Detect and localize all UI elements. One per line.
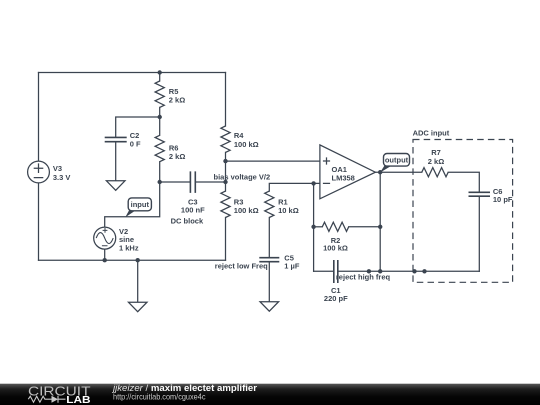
svg-text:10 pF: 10 pF <box>493 195 513 204</box>
capacitor C2 <box>105 131 141 181</box>
resistor R3 <box>221 191 259 217</box>
footer bar <box>0 383 540 405</box>
op-amp U1 OA1 LM358 <box>320 145 376 199</box>
node label input (callout) <box>125 198 151 217</box>
svg-text:10 kΩ: 10 kΩ <box>278 206 299 215</box>
svg-text:R7: R7 <box>431 148 441 157</box>
wire R3 bottom lead to ground rail <box>225 218 227 261</box>
wire R6 bottom node to C3 left plate <box>160 181 190 183</box>
wire left rail lower (V3 bottom lead) <box>38 183 40 260</box>
wire C6 bottom lead <box>478 197 480 271</box>
node R2 left junction <box>311 225 315 229</box>
wire input branch from V2 to R6/C3 node <box>105 182 160 227</box>
node output junction <box>378 170 382 174</box>
svg-text:LAB: LAB <box>66 395 90 405</box>
svg-text:100 kΩ: 100 kΩ <box>234 206 259 215</box>
capacitor C5 <box>259 253 300 270</box>
voltage source V3 <box>28 161 71 183</box>
wire bottom ground rail <box>39 259 226 261</box>
voltage source V2 (sine) <box>94 227 139 252</box>
svg-text:V3: V3 <box>53 164 62 173</box>
ground below bottom rail <box>128 302 147 312</box>
wire R4 bottom lead <box>225 152 227 161</box>
svg-text:100 kΩ: 100 kΩ <box>234 140 259 149</box>
svg-text:reject high freq: reject high freq <box>336 272 391 281</box>
logo diode glyph <box>52 396 59 403</box>
wire R5 bottom lead to node <box>159 107 161 117</box>
wire R1 top lead and bias line to op-amp - input <box>269 183 320 191</box>
node op-amp minus input junction <box>311 181 315 185</box>
wire feedback right vertical from output node <box>379 172 381 271</box>
node bottom rail junction a <box>367 269 371 273</box>
resistor R5 <box>155 81 185 107</box>
wire R4 node to op-amp + input <box>226 160 320 162</box>
node R6/C3/input junction <box>158 180 162 184</box>
wire node to C2 branch <box>116 117 160 137</box>
capacitor C6 <box>469 187 513 204</box>
svg-text:input: input <box>131 200 150 209</box>
capacitor C1 <box>324 260 348 303</box>
node feedback bottom junction <box>378 269 382 273</box>
node R5 top junction <box>158 70 162 74</box>
wire bottom feedback rail left of C1 <box>314 270 334 272</box>
resistor R2 <box>322 222 348 252</box>
svg-text:0 F: 0 F <box>130 139 141 148</box>
wire feedback left vertical from - input node <box>313 183 315 271</box>
wire R7 right lead to C6 top <box>448 172 479 191</box>
wire R5 top lead <box>159 73 161 82</box>
capacitor C3 <box>171 171 205 225</box>
wire R3 top lead <box>225 182 227 191</box>
wire ground stem below bottom rail <box>137 260 139 302</box>
svg-text:http://circuitlab.com/cguxe4c: http://circuitlab.com/cguxe4c <box>113 392 206 402</box>
wire R6 top lead <box>159 117 161 135</box>
wire top rail <box>39 72 226 74</box>
svg-text:220 pF: 220 pF <box>324 294 348 303</box>
node R2 right junction <box>378 225 382 229</box>
wire V2 bottom lead <box>104 249 106 260</box>
resistor R6 <box>155 135 185 161</box>
svg-text:LM358: LM358 <box>332 174 355 183</box>
node bias junction <box>223 180 227 184</box>
wire R1 bottom lead to C5 <box>268 218 270 258</box>
svg-text:output: output <box>385 156 409 165</box>
ground below C5 <box>260 302 279 312</box>
wire between R4 node and bias node <box>225 161 227 182</box>
svg-text:reject low Freq: reject low Freq <box>215 262 268 271</box>
svg-text:2 kΩ: 2 kΩ <box>169 152 185 161</box>
resistor R4 <box>221 126 259 152</box>
node V2 bottom junction <box>103 258 107 262</box>
node ground stem junction <box>136 258 140 262</box>
svg-text:ADC input: ADC input <box>413 128 450 137</box>
wire R2 right lead <box>349 226 381 228</box>
node label output (callout) <box>380 154 410 173</box>
node R5/R6/C2 junction <box>158 115 162 119</box>
wire left rail upper (V3 top lead) <box>38 73 40 162</box>
wire R6 bottom lead <box>159 162 161 182</box>
node R4 bottom junction <box>223 159 227 163</box>
svg-text:3.3 V: 3.3 V <box>53 173 71 182</box>
ADC input dashed box <box>413 140 513 283</box>
svg-text:DC block: DC block <box>171 216 204 225</box>
resistor R7 <box>422 148 448 177</box>
logo resistor glyph <box>28 396 51 402</box>
wire C3 right plate to bias node <box>196 181 225 183</box>
resistor R1 <box>265 191 299 217</box>
svg-text:100 kΩ: 100 kΩ <box>323 244 348 253</box>
ground below C2 <box>106 181 125 191</box>
wire R4 top lead from top rail <box>225 73 227 127</box>
wire C5 bottom stem <box>268 262 270 301</box>
wire bottom feedback rail C1 to C6 <box>338 270 479 272</box>
node bottom rail junction c <box>422 269 426 273</box>
svg-text:2 kΩ: 2 kΩ <box>428 157 444 166</box>
svg-text:100 nF: 100 nF <box>181 206 205 215</box>
svg-text:2 kΩ: 2 kΩ <box>169 96 185 105</box>
svg-text:bias voltage V/2: bias voltage V/2 <box>214 173 271 182</box>
wire op-amp output to R7 <box>375 171 421 173</box>
svg-text:1 µF: 1 µF <box>284 261 300 270</box>
node bottom rail junction b <box>412 269 416 273</box>
wire R2 left lead <box>314 226 323 228</box>
svg-text:1 kHz: 1 kHz <box>119 243 139 252</box>
